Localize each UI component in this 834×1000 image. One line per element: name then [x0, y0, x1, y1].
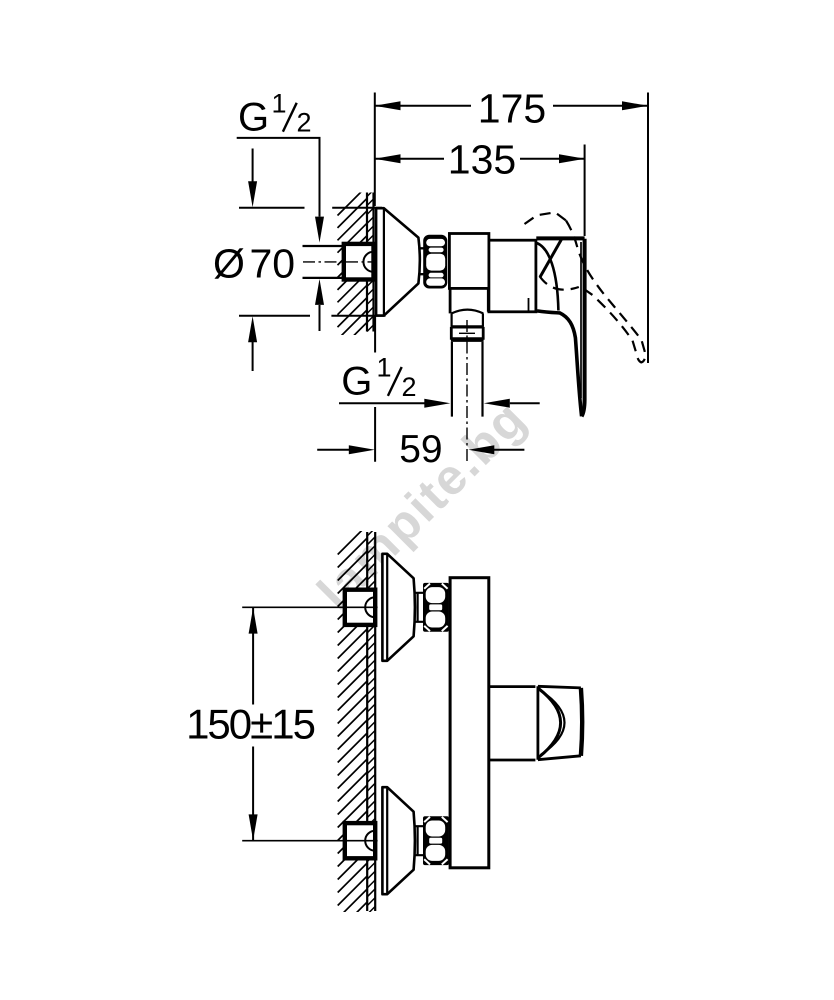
svg-text:2: 2: [297, 108, 312, 138]
union square fitting (lower, bottom view): [345, 823, 375, 858]
wall surface band hatching (top view): [367, 190, 374, 332]
svg-text:59: 59: [399, 428, 442, 471]
handle swing arc dashed: [540, 276, 579, 290]
svg-text:G: G: [238, 95, 269, 139]
supply stub / extension line (upper): [242, 606, 377, 608]
hex union nut (upper, bottom view): [423, 583, 449, 632]
outlet elbow: [450, 288, 488, 313]
svg-text:135: 135: [448, 136, 516, 182]
hose collar nut: [451, 325, 483, 328]
handle lever blade (closed, top view): [582, 239, 585, 416]
outlet pipe centerline: [466, 320, 468, 462]
handle hub (top view): [536, 236, 584, 240]
lever blade edge-on arcs: [539, 689, 561, 758]
union square fitting (upper, bottom view): [345, 590, 375, 625]
neck between escutcheon and nut: [418, 248, 425, 274]
svg-text:70: 70: [250, 240, 296, 286]
escutcheon cone (lower, bottom view): [382, 787, 415, 894]
handle lever dashed (open position): [525, 212, 567, 224]
svg-text:2: 2: [402, 372, 417, 402]
dimension 135: [584, 145, 586, 237]
dimension 59: [374, 316, 376, 462]
svg-text:150±15: 150±15: [186, 701, 314, 748]
main mixer body (top view): [489, 240, 536, 312]
svg-text:1: 1: [272, 88, 287, 118]
wall hatching (bottom view): [338, 525, 376, 932]
dimension 175: [375, 93, 648, 364]
escutcheon cone (upper, bottom view): [382, 554, 415, 661]
union ball seat arc (lower): [365, 831, 375, 851]
hex union nut (top view): [423, 235, 447, 289]
G1/2 outlet leader with arrows: [339, 402, 425, 404]
dimension 150±15: [252, 608, 254, 841]
outlet pipe G1/2 (top view): [452, 342, 483, 417]
washer between cone and nut (lower): [414, 826, 423, 855]
washer between cone and nut (upper): [414, 593, 423, 622]
handle cap (bottom view): [538, 686, 581, 759]
wall line (bottom view): [367, 532, 375, 911]
supply pipe G1/2 (top view): [303, 246, 344, 278]
mounting plate body (bottom view): [450, 578, 489, 868]
svg-text:Ø: Ø: [213, 240, 245, 286]
svg-text:G: G: [341, 360, 372, 404]
cartridge dome arc: [537, 243, 559, 311]
escutcheon cone (top view): [376, 208, 420, 315]
G1/2 leader line with arrows: [237, 138, 320, 217]
union ball seat arc: [363, 252, 373, 272]
hex union nut (lower, bottom view): [423, 816, 449, 865]
handle neck (bottom view): [490, 687, 536, 760]
svg-text:1: 1: [377, 353, 392, 383]
dimension diameter 70: [239, 208, 386, 316]
supply centerline (top view): [303, 261, 381, 263]
supply stub / extension line (lower): [242, 840, 377, 842]
union square fitting (top view): [344, 244, 374, 280]
svg-text:175: 175: [478, 85, 546, 131]
wall line (top view): [367, 193, 374, 332]
wall hatching (top view): [338, 186, 374, 352]
wall surface band hatching (bottom view): [367, 528, 375, 914]
check valve housing (top view): [449, 234, 489, 289]
union ball seat arc (upper): [365, 597, 375, 617]
